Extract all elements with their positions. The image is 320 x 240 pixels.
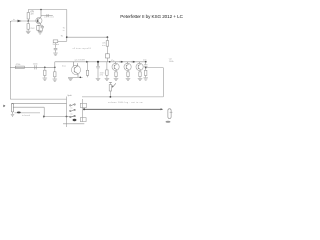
- svg-text:3pdt: 3pdt: [67, 94, 72, 97]
- capacitor C filter: [54, 43, 58, 53]
- svg-text:to board: to board: [22, 114, 31, 117]
- node: [109, 61, 111, 63]
- ground: [138, 78, 143, 80]
- switch pole 1: [70, 104, 76, 107]
- emitter network R+C: [37, 23, 44, 31]
- resistor R7: [86, 62, 88, 78]
- node: [54, 67, 56, 69]
- collector out wire: [41, 15, 53, 17]
- wire sw feed 1: [10, 98, 66, 100]
- capacitor C2: [96, 62, 105, 78]
- switch pole 3: [70, 115, 76, 118]
- resistor R4: [44, 67, 46, 77]
- resistor R9: [145, 68, 147, 78]
- wire bypass left: [9, 21, 11, 99]
- wire out dark: [84, 108, 162, 110]
- wire stage1 drop: [66, 10, 68, 42]
- wire jack out: [15, 112, 41, 114]
- ground: [68, 78, 73, 80]
- ground: [126, 78, 131, 80]
- led: [73, 119, 77, 121]
- capacitor C1: [33, 64, 39, 70]
- box sw1: [80, 103, 86, 107]
- resistor under Q4: [127, 70, 129, 78]
- ground: [11, 114, 14, 116]
- svg-text:100k: 100k: [169, 61, 175, 63]
- ground: [53, 53, 58, 55]
- node: [43, 116, 45, 118]
- sleeve blob: [17, 111, 21, 113]
- transistor Q2: [71, 62, 80, 78]
- resistor R3: [15, 64, 24, 69]
- svg-text:47k: 47k: [100, 75, 104, 77]
- ground: [38, 32, 43, 34]
- stage1 V+ rail: [28, 9, 67, 11]
- node rail-R1: [40, 9, 42, 11]
- wire mid jog: [54, 62, 56, 68]
- wire out drop: [162, 68, 164, 97]
- ground: [53, 79, 58, 81]
- svg-text:9V bat: 9V bat: [53, 43, 60, 46]
- node: [44, 67, 46, 69]
- ground: [26, 31, 31, 33]
- svg-text:bias: bias: [62, 65, 67, 67]
- ground: [114, 78, 119, 80]
- node rail2: [66, 36, 68, 38]
- svg-text:trim: trim: [102, 44, 106, 47]
- svg-text:q2 2n5089: q2 2n5089: [75, 59, 86, 61]
- svg-text:sw: sw: [70, 108, 73, 110]
- node: [66, 116, 68, 118]
- svg-text:+: +: [170, 109, 172, 111]
- node: [145, 67, 147, 69]
- node rail end: [107, 36, 109, 38]
- node: [80, 77, 82, 79]
- battery B1: [53, 40, 67, 46]
- input jack J1: [3, 104, 13, 114]
- node: [110, 96, 112, 98]
- transistor Q1: [36, 10, 42, 24]
- svg-text:2M2: 2M2: [30, 28, 35, 30]
- capacitor: [120, 61, 121, 63]
- transistor Q3: [112, 62, 119, 71]
- node: [121, 61, 123, 63]
- wire sw feed 3: [13, 107, 44, 116]
- switch pole 2: [70, 109, 76, 112]
- tick: [43, 115, 45, 118]
- svg-text:Peterfetter II by KSG 2012 + L: Peterfetter II by KSG 2012 + LC: [120, 14, 183, 19]
- emitter bus: [68, 76, 83, 78]
- wire: [82, 99, 84, 122]
- transistor Q4: [124, 62, 131, 71]
- ground: [43, 78, 48, 80]
- svg-text:in: in: [63, 30, 65, 32]
- wire base line: [10, 21, 38, 23]
- wire sw feed 2: [11, 102, 66, 104]
- box sw2: [80, 118, 86, 122]
- trimpot box: [105, 54, 109, 58]
- svg-text:out to sw1: out to sw1: [44, 16, 55, 19]
- svg-text:9v: 9v: [61, 35, 64, 37]
- pot P1: [109, 82, 116, 97]
- svg-text:9v: 9v: [63, 27, 66, 29]
- node out: [145, 61, 147, 63]
- wire pot row: [82, 96, 163, 98]
- capacitor: [132, 61, 133, 63]
- wire sw bottom: [63, 123, 84, 125]
- output jack J2: [168, 109, 173, 119]
- node: [133, 61, 135, 63]
- wire out: [146, 67, 164, 69]
- resistor R2: [27, 21, 29, 31]
- resistor R8: [106, 62, 108, 78]
- svg-text:100n: 100n: [33, 64, 39, 66]
- node base: [27, 20, 29, 22]
- capacitor C4: [144, 62, 148, 67]
- transistor Q5: [136, 62, 143, 71]
- resistor R1: [27, 10, 34, 22]
- resistor under Q3: [115, 70, 117, 78]
- svg-text:all trans mpsa18: all trans mpsa18: [73, 47, 92, 50]
- arrow: [161, 108, 164, 110]
- ground: [105, 78, 110, 80]
- arrow: [86, 61, 89, 63]
- node C2 top: [97, 61, 99, 63]
- input arrow: [18, 20, 22, 23]
- mid signal wire: [55, 61, 146, 63]
- svg-text:volume 100k log - out to sw: volume 100k log - out to sw: [108, 101, 143, 104]
- input chain wire: [10, 66, 55, 68]
- ground: [96, 78, 101, 80]
- main V+ rail: [67, 36, 108, 38]
- svg-text:10u: 10u: [143, 60, 147, 62]
- svg-text:470k: 470k: [16, 64, 22, 66]
- switch bus: [66, 97, 68, 128]
- svg-text:1M: 1M: [30, 13, 33, 15]
- capacitor: [47, 14, 48, 17]
- resistor R5: [102, 37, 109, 54]
- wire battery row: [44, 116, 76, 118]
- ground: [143, 78, 148, 80]
- resistor R6: [54, 67, 56, 78]
- svg-text:sw: sw: [70, 113, 73, 115]
- node base2: [37, 20, 39, 22]
- resistor under Q5: [139, 70, 141, 78]
- node: [83, 108, 85, 110]
- ground blob: [166, 121, 171, 123]
